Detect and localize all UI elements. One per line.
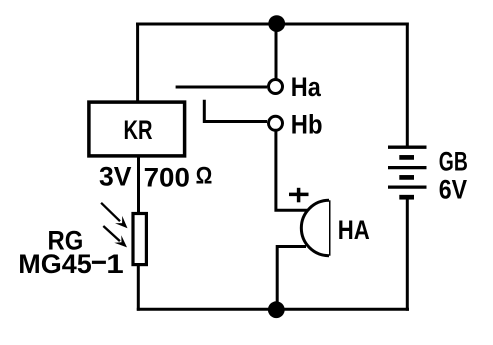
wire speaker bottom lead down to bottom junction [277, 247, 306, 311]
speaker HA plus sign [289, 188, 309, 203]
wire L-shape to contact Hb [204, 100, 267, 122]
contact Ha circle [269, 80, 283, 94]
wire photoresistor to bottom [137, 263, 140, 311]
wire battery to bottom [406, 197, 409, 311]
battery short plate 2 [399, 175, 414, 180]
photoresistor RG body [133, 214, 146, 265]
svg-text:KR: KR [124, 115, 153, 145]
battery long plate 3 [388, 185, 427, 188]
wire Hb down to speaker top lead [276, 132, 307, 211]
svg-text:3V: 3V [99, 162, 132, 192]
battery GB plates [388, 147, 427, 197]
battery long plate 1 [388, 146, 427, 149]
wire top junction to contact Ha [275, 24, 278, 80]
battery short plate 1 [399, 155, 414, 160]
node top junction dot [268, 15, 285, 32]
contact Hb circle [269, 116, 283, 130]
wire top horizontal [136, 23, 409, 26]
svg-text:6V: 6V [439, 174, 467, 204]
model dash [92, 261, 106, 264]
battery short plate 3 [399, 195, 414, 200]
battery long plate 2 [388, 166, 427, 169]
wire switch arm to Ha [176, 86, 267, 89]
wire right vertical (top wire to battery) [406, 23, 409, 148]
wire left vertical (top wire to KR) [136, 23, 139, 103]
speaker HA body [301, 200, 329, 255]
light arrow 2 [103, 226, 127, 247]
svg-text:1: 1 [106, 249, 124, 279]
svg-text:Ha: Ha [291, 72, 322, 102]
svg-text:GB: GB [439, 147, 468, 177]
svg-text:700: 700 [144, 162, 190, 192]
wire KR bottom to photoresistor [137, 155, 140, 215]
light arrow 1 [101, 203, 127, 229]
wire bottom horizontal [137, 308, 409, 311]
svg-text:MG45: MG45 [18, 249, 92, 279]
svg-text:Hb: Hb [291, 110, 323, 140]
relay KR box [89, 102, 185, 156]
svg-text:Ω: Ω [196, 163, 213, 190]
svg-text:HA: HA [338, 215, 370, 245]
node bottom junction dot [268, 301, 285, 318]
